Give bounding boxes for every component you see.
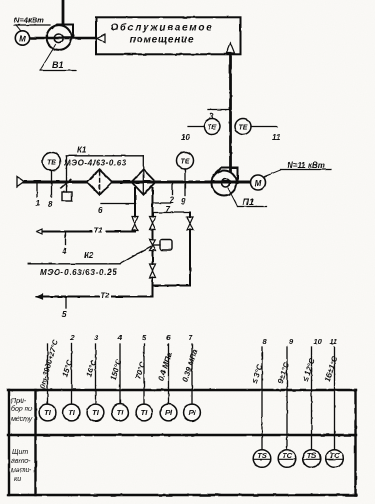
wire: main supply duct [24, 181, 251, 184]
control valve K2 [150, 240, 173, 251]
svg-text:11: 11 [330, 337, 338, 346]
svg-text:бор по: бор по [11, 405, 33, 413]
TE sensor 10 [181, 119, 220, 143]
svg-text:ТС: ТС [282, 451, 293, 460]
svg-text:ки: ки [14, 476, 21, 483]
svg-text:ТI: ТI [92, 408, 100, 417]
svg-text:4: 4 [61, 247, 67, 256]
svg-text:К1: К1 [77, 146, 87, 155]
svg-text:ТЕ: ТЕ [208, 125, 217, 132]
label K1 with line [64, 146, 143, 195]
heating pipe middle [152, 188, 154, 217]
tick and label 1 [36, 182, 41, 208]
valve on left pipe [132, 217, 138, 231]
TE sensor 8 [43, 153, 61, 210]
wire [152, 278, 154, 297]
svg-text:месту: месту [11, 416, 33, 423]
svg-text:ТI: ТI [44, 408, 52, 417]
instrument circle TI-4 [112, 404, 129, 421]
svg-text:Т1: Т1 [94, 226, 103, 235]
panel instrument TC-9 [278, 450, 296, 468]
svg-text:При-: При- [11, 398, 27, 405]
panel instrument TC-11 [326, 450, 344, 468]
slanted value labels [37, 338, 339, 390]
lower valve on middle pipe [150, 264, 156, 278]
valve on bypass pipe [187, 217, 193, 230]
svg-text:помещение: помещение [130, 35, 195, 46]
panel instrument TS-8 [253, 450, 271, 468]
panel instrument TS-10 [303, 450, 321, 468]
label 7 and bypass bracket [153, 205, 191, 214]
svg-text:РI: РI [188, 408, 196, 417]
svg-text:К2: К2 [84, 251, 94, 260]
tick and label 3 [208, 110, 231, 122]
svg-text:ТЕ: ТЕ [181, 159, 190, 166]
instrument circle PI-6 [160, 404, 177, 421]
svg-text:2: 2 [69, 333, 75, 342]
motor M of fan B1 [15, 31, 29, 45]
svg-text:1: 1 [36, 199, 41, 208]
pipe T1 [37, 226, 136, 236]
svg-text:10: 10 [181, 133, 190, 142]
svg-text:авто-: авто- [11, 458, 31, 465]
instrument circle TI-2 [63, 404, 80, 421]
TE sensor 9 [177, 152, 194, 206]
header: automation panel [11, 449, 32, 483]
motor M of fan P1 [251, 175, 266, 190]
svg-text:3: 3 [209, 112, 214, 121]
svg-text:Т2: Т2 [101, 291, 111, 300]
svg-text:ТI: ТI [117, 408, 125, 417]
valve on middle pipe [150, 217, 156, 230]
label B1 [40, 44, 76, 71]
supply air arrow into room [97, 35, 105, 43]
return air arrow at room bottom [227, 43, 235, 53]
svg-text:ТЕ: ТЕ [239, 125, 248, 132]
bypass pipe right [189, 213, 191, 218]
svg-text:Щит: Щит [12, 449, 28, 456]
wire: motor M to fan B1 and on to room box [30, 37, 97, 39]
wire: exhaust duct up from fan B1 [62, 0, 65, 25]
svg-text:8: 8 [48, 200, 53, 209]
svg-text:ТЕ: ТЕ [47, 160, 56, 167]
tick and label 4 [61, 232, 67, 257]
svg-text:П1: П1 [243, 197, 254, 207]
instrument circle TI-5 [136, 404, 153, 421]
instrument leader lines row 1 [48, 344, 193, 404]
TE sensor 11 [235, 119, 281, 143]
svg-text:ТS: ТS [307, 451, 317, 460]
damper actuator K1 link and square [61, 156, 72, 201]
svg-text:5: 5 [62, 310, 67, 319]
label P1 [228, 188, 267, 207]
svg-text:М: М [19, 35, 26, 44]
svg-text:В1: В1 [52, 60, 64, 70]
svg-text:ТS: ТS [257, 451, 267, 460]
air damper (diamond with dashed blade) [87, 170, 112, 195]
svg-text:ТС: ТС [330, 451, 341, 460]
instrument leader lines row 2 [262, 347, 335, 450]
svg-text:Обслуживаемое: Обслуживаемое [111, 22, 214, 34]
instrument circle TI-3 [87, 404, 104, 421]
header: instruments in place [11, 398, 33, 423]
air heater (diamond) [132, 170, 156, 195]
pipe T2 [37, 291, 153, 301]
fan P1 [212, 168, 238, 196]
wire [152, 251, 154, 265]
wire: return duct from room down to fan P1 [229, 54, 232, 171]
svg-text:мати-: мати- [11, 467, 32, 474]
svg-text:9: 9 [181, 197, 186, 206]
svg-text:N=11 кВт: N=11 кВт [287, 161, 325, 170]
svg-text:МЭО-0.63/63-0.25: МЭО-0.63/63-0.25 [40, 268, 117, 277]
svg-text:М: М [255, 179, 262, 188]
bracket and label 6 [98, 204, 135, 216]
svg-text:ТI: ТI [141, 408, 149, 417]
point numbers [69, 333, 337, 346]
svg-text:МЭО-4/63-0.63: МЭО-4/63-0.63 [64, 159, 127, 168]
label K2 with line and leader [29, 247, 151, 278]
wire: bypass bottom [153, 285, 191, 287]
room text [111, 22, 214, 46]
svg-text:11: 11 [272, 133, 281, 142]
outside air intake arrow [17, 177, 24, 187]
wire [152, 230, 154, 240]
tick and label 5 [62, 297, 67, 320]
tick and label 2 [153, 182, 175, 205]
label N=4kVt [14, 16, 50, 32]
label N=11kVt [265, 161, 332, 177]
svg-text:N=4кВт: N=4кВт [14, 16, 44, 25]
room box [96, 17, 241, 54]
svg-text:10: 10 [314, 337, 323, 346]
fan B1 [47, 25, 73, 50]
heating pipe left [134, 188, 136, 217]
table frame [8, 390, 356, 495]
svg-text:ТI: ТI [68, 408, 76, 417]
instrument circle PI-7 [184, 404, 201, 421]
svg-text:4: 4 [117, 333, 123, 342]
instrument circle TI-1 [39, 404, 56, 421]
svg-text:РI: РI [165, 408, 173, 417]
svg-text:6: 6 [98, 206, 103, 215]
wire [134, 231, 136, 232]
